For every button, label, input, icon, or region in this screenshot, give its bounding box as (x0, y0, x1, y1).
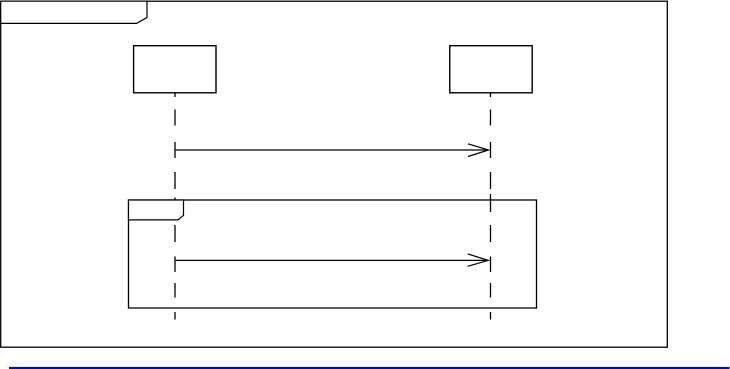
lifeline A (dashed) (174, 93, 176, 320)
blue separator rule (9, 367, 730, 369)
fragment operator tab (pentagon) (129, 200, 184, 220)
message arrow 1 (176, 144, 489, 157)
lifeline B (dashed) (490, 93, 492, 320)
lifeline head box B (450, 46, 532, 93)
lifeline head box A (134, 46, 216, 93)
frame name tab (pentagon) (1, 1, 147, 23)
combined fragment frame (129, 200, 537, 308)
message arrow 2 (176, 254, 489, 266)
